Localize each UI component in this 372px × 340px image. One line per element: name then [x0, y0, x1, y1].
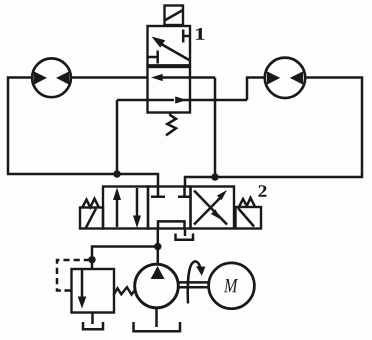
- motor right MR: [265, 58, 305, 98]
- relief valve pilot dashed line: [57, 260, 90, 291]
- wire: right motor right port down to B-line: [185, 78, 362, 187]
- relief valve arrow: [78, 270, 87, 309]
- label 2: [259, 185, 267, 197]
- valve 1 lower position: through line with right arrow: [117, 96, 247, 103]
- motor left ML: [32, 58, 71, 97]
- shaft pump to motor M: [178, 282, 209, 287]
- valve 2 right end box (solenoid): [236, 198, 262, 229]
- label 1: [196, 28, 205, 40]
- tank under valve 2: [176, 234, 194, 240]
- electric motor M: [209, 263, 255, 309]
- valve 1 top position: diagonal arrow: [152, 37, 191, 61]
- wire: right motor left port to valve1 lower line: [247, 78, 265, 101]
- wire: P port of valve 2 down to pump: [157, 229, 160, 265]
- valve 1 lower position: through line with left arrow: [151, 74, 215, 81]
- tank under relief valve: [83, 322, 103, 329]
- pump P1: [135, 264, 179, 308]
- valve 1 body: [148, 26, 191, 113]
- valve 1 top position: blocked port right: [183, 30, 190, 43]
- tank under pump: [134, 322, 181, 331]
- valve 2 body left box: parallel arrows: [103, 187, 148, 229]
- rotation arrow: [188, 261, 206, 303]
- relief valve RV box: [72, 269, 115, 313]
- wire: relief valve to tank: [91, 313, 94, 325]
- valve 1 spring: [166, 114, 176, 136]
- relief valve left port stub: [65, 289, 72, 292]
- valve 2 body right box: crossed arrows: [191, 187, 235, 229]
- wire: left motor right port to valve 1 upper line: [71, 76, 148, 79]
- wire: pump to tank: [155, 308, 158, 327]
- junction dot pilot line: [88, 256, 95, 263]
- relief valve spring: [114, 287, 136, 295]
- junction dot B-line / valve1: [211, 173, 218, 180]
- wire: valve1 lower line left end down to A-line: [116, 100, 119, 174]
- valve 1 solenoid: [165, 6, 184, 26]
- wire: branch to relief valve: [92, 247, 158, 270]
- wire: valve1 upper line right end down to B-line: [214, 78, 217, 178]
- valve 1 top position: blocked port left: [148, 51, 158, 64]
- wire: T port of valve 2 down to tank: [184, 229, 187, 237]
- wire: left motor left port down to A-line: [8, 78, 158, 187]
- valve 2 left end box (solenoid): [80, 199, 103, 229]
- junction dot pump line / relief branch: [154, 243, 161, 250]
- junction dot A-line / valve1: [113, 170, 120, 177]
- valve 2 body middle box: blocked A,B + P-T connected: [148, 187, 192, 229]
